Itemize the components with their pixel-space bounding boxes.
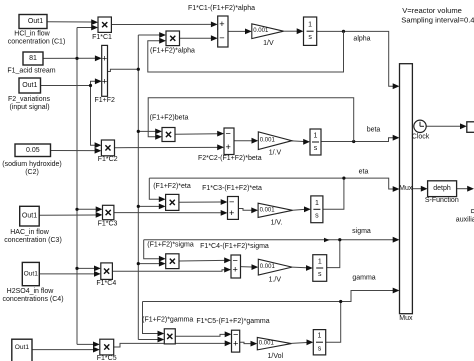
svg-text:s: s	[318, 271, 322, 278]
junction F1/row3	[75, 208, 78, 211]
svg-text:alpha: alpha	[353, 36, 370, 43]
svg-text:1: 1	[318, 333, 322, 340]
svg-text:gamma: gamma	[352, 275, 375, 282]
mux block Mux	[400, 64, 413, 314]
sum block F1*C1-(F1+F2)*alpha	[218, 16, 228, 47]
svg-text:1: 1	[318, 259, 322, 266]
wire eta feedback down to (F1+F2)*eta upper input	[149, 178, 159, 199]
wire F1 distribution vertical	[76, 28, 78, 345]
svg-text:eta: eta	[359, 169, 369, 176]
svg-text:F1*C1: F1*C1	[92, 34, 112, 41]
clock block	[414, 120, 426, 132]
svg-text:(F1+F2)*sigma: (F1+F2)*sigma	[147, 241, 194, 248]
svg-text:F1*C2: F1*C2	[98, 156, 118, 163]
block fragment at right edge above auxili text	[471, 210, 474, 213]
wire F1*C4 output to sum + input	[112, 270, 224, 272]
wire F1 to F1*C1 lower input	[77, 27, 92, 29]
junction F1+F2/row3	[137, 205, 140, 208]
wire F1*C5 output to sum + input	[114, 343, 225, 347]
wire bottom Out1 to F1*C5 lower input	[32, 349, 94, 351]
sum block F1*C3-(F1+F2)*eta	[228, 197, 239, 220]
svg-text:1: 1	[308, 22, 312, 29]
svg-text:concentrations (C4): concentrations (C4)	[2, 296, 63, 303]
wire F1_acid 81 to F1+F2 sum input 1	[43, 57, 95, 59]
svg-text:F1*C4: F1*C4	[96, 280, 116, 287]
wire (F1+F2)*eta output to sum - input	[179, 201, 221, 203]
wire F1+F2 sum output	[108, 69, 139, 71]
wire gamma feedback line	[143, 301, 341, 303]
wire S-Function output to edge block	[457, 188, 468, 190]
outport block Out1 (F2_variations input signal)	[19, 78, 41, 93]
gain block 0.001 (1/V)	[252, 24, 284, 39]
wire alpha to Mux input 1	[317, 31, 393, 86]
wire F1*C3 output to sum + input	[114, 212, 221, 214]
svg-text:1: 1	[314, 133, 318, 140]
svg-text:Mux: Mux	[399, 185, 413, 192]
wire eta line to Mux input 3	[149, 178, 393, 189]
svg-text:(sodium hydroxide): (sodium hydroxide)	[2, 161, 62, 168]
svg-text:+: +	[229, 208, 234, 218]
junction sigma feedback	[338, 238, 341, 241]
wire F2 vertical to F1*C2 upper input	[91, 86, 96, 146]
svg-text:1: 1	[315, 200, 319, 207]
svg-text:concentration (C3): concentration (C3)	[4, 237, 62, 244]
product block (F1+F2)*alpha	[166, 31, 180, 46]
svg-text:H2SO4_in flow: H2SO4_in flow	[7, 288, 55, 295]
svg-text:s: s	[314, 145, 318, 152]
integrator block 1/s (beta)	[310, 129, 321, 155]
svg-text:concentration (C1): concentration (C1)	[8, 39, 66, 46]
product block F1*C4	[101, 263, 113, 280]
wire (F1+F2)beta output to sum - input	[175, 133, 218, 136]
product block F1*C1	[98, 17, 111, 32]
product block (F1+F2)*eta	[166, 194, 179, 210]
svg-text:S-Function: S-Function	[425, 197, 459, 204]
svg-text:HCl_in flow: HCl_in flow	[14, 31, 50, 38]
junction F1+F2 output	[137, 68, 140, 71]
svg-text:V=reactor volume: V=reactor volume	[402, 6, 462, 15]
wire F1+F2 to (F1+F2)*eta lower input	[138, 205, 159, 207]
wire beta to Mux input 2	[321, 138, 393, 142]
wire integrator 4 up to sigma line	[327, 240, 340, 268]
svg-text:1/Vol: 1/Vol	[268, 353, 284, 360]
svg-text:Out1: Out1	[22, 213, 37, 220]
wire HCl Out1 to F1*C1 upper input	[47, 21, 92, 23]
wire alpha feedback loop	[148, 31, 344, 72]
product block (F1+F2)*sigma	[166, 254, 179, 269]
svg-text:(F1+F2)*gamma: (F1+F2)*gamma	[142, 316, 193, 323]
product block (F1+F2)*gamma	[164, 329, 175, 344]
constant block 0.05 (sodium hydroxide C2)	[15, 144, 51, 157]
svg-text:Out1: Out1	[22, 82, 37, 89]
junction eta feedback	[342, 177, 345, 180]
junction beta feedback	[352, 140, 355, 143]
wire F1+F2 to (F1+F2)*gamma lower input	[138, 339, 158, 341]
wire eta sum output to gain 1/V.	[238, 209, 251, 211]
wire sigma line to Mux input 4	[144, 239, 393, 241]
wire gamma to Mux input 5	[341, 291, 393, 302]
block at right edge after Clock (cut off)	[467, 122, 474, 133]
svg-text:(F1+F2)beta: (F1+F2)beta	[150, 114, 189, 121]
svg-text:0.001: 0.001	[260, 138, 276, 144]
sum block F1*C5-(F1+F2)*gamma	[232, 329, 240, 352]
integrator block 1/s (gamma)	[313, 330, 325, 355]
svg-text:F1*C1-(F1+F2)*alpha: F1*C1-(F1+F2)*alpha	[188, 5, 255, 12]
svg-text:F2_variations: F2_variations	[8, 96, 51, 103]
wire H2SO4 Out1 to F1*C4 lower input	[39, 273, 94, 275]
gain block 0.001 (1/.V)	[258, 132, 292, 150]
wire F1+F2 distribution vertical	[137, 35, 139, 340]
wire beta feedback loop	[148, 98, 354, 142]
junction gamma feedback	[339, 300, 342, 303]
product block F1*C5	[100, 339, 114, 355]
wire (F1+F2)*sigma output to sum - input	[179, 259, 225, 262]
svg-text:1/V.: 1/V.	[271, 219, 283, 226]
svg-text:F1*C5: F1*C5	[97, 355, 117, 361]
svg-text:0.001: 0.001	[259, 341, 275, 347]
svg-text:+: +	[219, 19, 224, 29]
svg-text:+: +	[226, 142, 231, 152]
svg-text:s: s	[308, 34, 312, 41]
sum block F2*C2-(F1+F2)*beta	[224, 128, 234, 155]
svg-text:+: +	[102, 53, 107, 63]
outport block Out1 (bottom, cut off)	[12, 339, 32, 361]
wire (F1+F2)*alpha output to sum - input	[180, 37, 212, 39]
svg-text:(F1+F2)*eta: (F1+F2)*eta	[153, 183, 191, 190]
wire gain 1./V to integrator 4	[292, 266, 306, 269]
outport block Out1 (H2SO4_in flow concentrations C4)	[22, 262, 39, 285]
svg-text:HAC_in flow: HAC_in flow	[10, 229, 49, 236]
junction F1/row4	[75, 267, 78, 270]
svg-text:Sampling interval=0.45: Sampling interval=0.45	[401, 15, 474, 24]
svg-text:F1+F2: F1+F2	[94, 97, 115, 104]
outport block Out1 (HCl_in flow concentration C1)	[19, 15, 47, 29]
svg-text:0.05: 0.05	[26, 147, 40, 154]
svg-text:F1*C3: F1*C3	[98, 221, 118, 228]
wire gain 1/Vol to integrator 5	[291, 342, 307, 345]
svg-text:(F1+F2)*alpha: (F1+F2)*alpha	[150, 47, 195, 54]
svg-text:+: +	[102, 77, 107, 87]
svg-text:0.001: 0.001	[260, 264, 276, 270]
constant block 81	[23, 52, 43, 65]
wire gamma feedback down to (F1+F2)*gamma upper input	[143, 302, 158, 334]
gain block 0.001 (1./V)	[258, 259, 292, 275]
junction F1+F2/row2	[137, 130, 140, 133]
wire F1+F2 to (F1+F2)*sigma lower input	[138, 263, 159, 265]
wire sigma feedback down to (F1+F2)*sigma upper input	[144, 240, 160, 259]
svg-text:Out1: Out1	[28, 18, 43, 25]
wire F1*C1 output to sum + input	[111, 23, 211, 25]
wire Mux output to S-Function	[412, 188, 421, 190]
product block F1*C3	[103, 205, 114, 219]
svg-text:beta: beta	[367, 127, 381, 134]
svg-text:F1_acid stream: F1_acid stream	[7, 68, 55, 75]
svg-text:(C2): (C2)	[25, 169, 39, 176]
product block F1*C2	[101, 140, 114, 156]
sum block F1*C4-(F1+F2)*sigma	[231, 255, 241, 278]
wire beta sum output to gain 1/.V	[234, 140, 252, 142]
svg-text:−: −	[219, 33, 224, 43]
junction F1 on 81 output	[75, 57, 78, 60]
mid-wire arrowhead on sigma line	[324, 238, 330, 243]
svg-text:+: +	[233, 265, 238, 275]
wire F1*C2 output to sum + input	[115, 146, 218, 148]
wire integrator 3 up to eta line	[323, 178, 344, 209]
wire F1+F2 to (F1+F2)*alpha upper input	[138, 34, 159, 36]
svg-text:Mux: Mux	[399, 315, 413, 322]
wire F1 branch to F1*C4 upper input	[77, 267, 95, 269]
svg-text:F1*C3-(F1+F2)*eta: F1*C3-(F1+F2)*eta	[202, 185, 262, 192]
wire HAC Out1 to F1*C3 lower input	[39, 214, 96, 216]
wire sigma sum output to gain 1./V	[241, 266, 252, 268]
junction alpha feedback	[342, 30, 345, 33]
svg-text:sigma: sigma	[352, 228, 371, 235]
outport block Out1 (HAC_in flow concentration C3)	[20, 206, 40, 226]
svg-text:1./V: 1./V	[269, 277, 282, 284]
wire alpha sum output to gain 1/V	[228, 30, 245, 32]
wire F1 branch to F1*C3 upper input	[77, 208, 96, 210]
svg-text:+: +	[233, 338, 238, 348]
svg-text:F1*C4-(F1+F2)*sigma: F1*C4-(F1+F2)*sigma	[200, 243, 269, 250]
integrator block 1/s (alpha)	[304, 17, 317, 45]
svg-text:s: s	[315, 212, 319, 219]
svg-text:F2*C2-(F1+F2)*beta: F2*C2-(F1+F2)*beta	[198, 155, 262, 162]
svg-text:0.001: 0.001	[260, 207, 276, 213]
svg-text:s: s	[318, 345, 322, 352]
svg-text:F1*C5-(F1+F2)*gamma: F1*C5-(F1+F2)*gamma	[196, 318, 269, 325]
svg-text:1/V: 1/V	[263, 40, 274, 47]
svg-text:detph: detph	[433, 185, 451, 192]
junction F1+F2/row4	[137, 262, 140, 265]
wire F2_variations Out1 to F1+F2 sum input 2	[41, 81, 96, 85]
wire gain 1/V to integrator 1	[284, 30, 298, 32]
svg-text:(input signal): (input signal)	[9, 104, 49, 111]
gain block 0.001 (1/V.)	[258, 203, 292, 217]
integrator block 1/s (eta)	[311, 196, 323, 223]
gain block 0.001 (1/Vol)	[257, 337, 291, 350]
wire Clock output	[426, 125, 460, 127]
wire integrator 5 up to gamma line	[326, 302, 341, 343]
junction F2 branch	[89, 84, 92, 87]
svg-text:Out1: Out1	[24, 271, 39, 278]
wire gain 1/.V to integrator 2	[292, 140, 304, 143]
integrator block 1/s (sigma)	[313, 255, 327, 282]
wire 0.05 to F1*C2 lower input	[51, 150, 96, 152]
wire gamma sum output to gain 1/Vol	[240, 342, 251, 343]
wire F1 bottom branch to F1*C5 upper input	[77, 343, 94, 345]
svg-text:0.001: 0.001	[253, 28, 269, 34]
svg-text:Clock: Clock	[412, 134, 430, 141]
wire gain 1/V. to integrator 3	[293, 208, 305, 211]
sum block F1+F2	[102, 45, 108, 96]
svg-text:81: 81	[29, 55, 37, 62]
product block (F1+F2)beta	[162, 128, 175, 142]
wire F1+F2 to (F1+F2)beta upper input	[138, 130, 155, 132]
svg-text:−: −	[229, 197, 234, 207]
svg-text:−: −	[226, 129, 231, 139]
svg-text:1/.V: 1/.V	[269, 149, 282, 156]
svg-text:auxilia: auxilia	[456, 216, 474, 223]
wire (F1+F2)*gamma output to sum - input	[175, 334, 225, 336]
s-function block detph	[428, 181, 457, 197]
svg-text:Out1: Out1	[15, 344, 30, 351]
